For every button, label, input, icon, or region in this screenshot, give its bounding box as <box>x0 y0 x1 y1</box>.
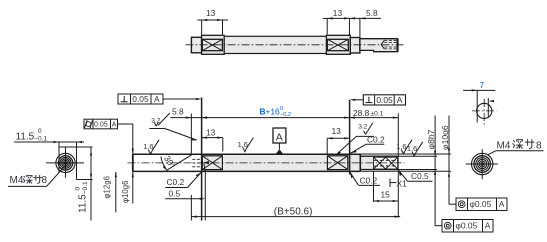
tapped hole hidden lines (top view right end) <box>381 40 397 49</box>
svg-text:15: 15 <box>381 190 391 200</box>
11.5 0/-0.1 rotated text <box>75 181 89 213</box>
dimension 7 <box>463 80 495 102</box>
concentricity frame 1 <box>449 177 507 211</box>
svg-text:C0.2: C0.2 <box>167 177 185 187</box>
svg-text:13: 13 <box>333 8 343 18</box>
shaft body top view <box>191 35 397 54</box>
dimension 13 (top view right) <box>323 8 381 36</box>
thick extension line x=201.6 <box>201 98 203 221</box>
svg-text:7: 7 <box>480 80 485 90</box>
svg-text:φ10g6: φ10g6 <box>121 181 130 203</box>
svg-text:φ10g6: φ10g6 <box>440 125 450 150</box>
dimension 15 <box>374 190 399 203</box>
leader arrow into left thread <box>203 161 209 220</box>
dimension (B+50.6) <box>191 206 400 217</box>
svg-text:φ0.05: φ0.05 <box>470 199 492 209</box>
svg-text:−0.2: −0.2 <box>280 112 291 118</box>
bottom right end view circle (tapped) <box>466 149 498 179</box>
svg-text:0.05: 0.05 <box>376 95 393 105</box>
svg-text:13: 13 <box>206 127 216 137</box>
extension line x=327.2 <box>326 138 328 154</box>
svg-text:φ0.05: φ0.05 <box>456 221 478 231</box>
svg-text:3.2: 3.2 <box>151 117 160 124</box>
svg-text:−0.1: −0.1 <box>34 136 47 143</box>
right wrench flat box (bottom view) <box>327 156 347 170</box>
svg-text:A: A <box>112 122 117 129</box>
svg-text:13: 13 <box>206 8 216 18</box>
dimension 13 (bottom view right) <box>327 126 349 139</box>
dimension 5.8 (bottom view) <box>170 107 207 119</box>
svg-text:0: 0 <box>38 128 42 135</box>
cylindricity frame <box>84 119 134 154</box>
M4 depth 8 label right <box>488 139 544 155</box>
svg-text:3.2: 3.2 <box>358 123 367 130</box>
svg-text:A: A <box>397 95 403 105</box>
svg-text:A: A <box>485 221 491 231</box>
svg-text:+16: +16 <box>266 107 281 117</box>
30-degree wedge line at left end <box>161 154 192 171</box>
M4 depth 8 label left <box>8 167 65 187</box>
svg-text:M4: M4 <box>497 140 511 151</box>
svg-text:C0.5: C0.5 <box>411 171 429 181</box>
svg-text:5.8: 5.8 <box>366 8 378 18</box>
perpendicularity frame left <box>118 94 202 104</box>
svg-text:A: A <box>276 132 283 144</box>
concentricity frame 2 <box>435 177 493 232</box>
svg-text:0: 0 <box>75 187 82 191</box>
step line at x=349.6 <box>349 100 351 175</box>
svg-text:M4: M4 <box>10 175 24 186</box>
surface mark 3.2 right <box>336 123 375 156</box>
centerline (bottom view) <box>128 162 405 164</box>
label 0.5 <box>165 189 205 200</box>
datum A flag <box>273 128 286 154</box>
svg-text:X1: X1 <box>397 179 408 189</box>
svg-text:11.5: 11.5 <box>78 194 89 213</box>
top right end view circle (wrench flats) <box>472 90 497 126</box>
left end view circle <box>46 147 84 177</box>
svg-text:φ12g6: φ12g6 <box>103 176 112 198</box>
dimension B+16 0/-0.2 <box>202 106 350 119</box>
label C0.2 bottom-left <box>165 173 201 188</box>
label X1 <box>390 179 407 189</box>
perpendicularity frame right <box>350 95 406 105</box>
svg-text:0.05: 0.05 <box>94 122 108 129</box>
centerline (top view) <box>186 44 405 46</box>
phi8h7 label <box>398 116 437 178</box>
label C0.5 <box>399 170 433 181</box>
svg-text:A: A <box>154 94 160 104</box>
svg-text:0.5: 0.5 <box>169 189 181 199</box>
label C0.2 bottom-right <box>350 172 380 185</box>
svg-text:8: 8 <box>536 140 542 151</box>
svg-text:φ8h7: φ8h7 <box>426 129 436 149</box>
svg-text:13: 13 <box>332 126 342 136</box>
surface mark 3.2 left <box>149 113 197 141</box>
shaft outline (bottom view) <box>133 154 398 171</box>
svg-text:5.8: 5.8 <box>172 107 184 117</box>
dimension 28.8±0.1 <box>350 108 399 119</box>
svg-text:C0.2: C0.2 <box>360 176 378 186</box>
11.5 0/-0.1 horizontal text <box>16 128 48 142</box>
right wrench flat box (top view) <box>327 39 348 50</box>
phi12g6 label <box>103 172 117 213</box>
svg-text:(B+50.6): (B+50.6) <box>274 206 313 217</box>
dimension 13 (bottom view left) <box>202 127 223 151</box>
svg-text:±0.1: ±0.1 <box>371 111 384 118</box>
phi10g6 label right <box>360 116 451 178</box>
label C0.2 top-right <box>351 135 386 154</box>
dimension 5.8 (top view) <box>349 8 378 37</box>
svg-text:28.8: 28.8 <box>353 108 370 118</box>
M4 thread hidden lines (bottom view left) <box>192 159 201 167</box>
extension line x=191.35 <box>190 114 192 221</box>
extension line x=398.3 <box>397 114 399 218</box>
dimension 13 (top view left) <box>198 8 229 35</box>
left wrench flat box (bottom view) <box>202 156 222 170</box>
svg-text:11.5: 11.5 <box>16 131 35 142</box>
svg-text:A: A <box>499 199 505 209</box>
svg-text:8: 8 <box>42 175 48 186</box>
11.5 dim lines (left end view) <box>14 141 93 221</box>
phi10g6 label left <box>121 172 134 204</box>
M4 thread region (bottom view right) <box>374 157 398 169</box>
extension line x=373.5 below shaft <box>373 171 375 202</box>
svg-text:−0.1: −0.1 <box>82 181 89 194</box>
left wrench flat box (top view) <box>202 39 222 50</box>
svg-text:0.05: 0.05 <box>132 94 149 104</box>
